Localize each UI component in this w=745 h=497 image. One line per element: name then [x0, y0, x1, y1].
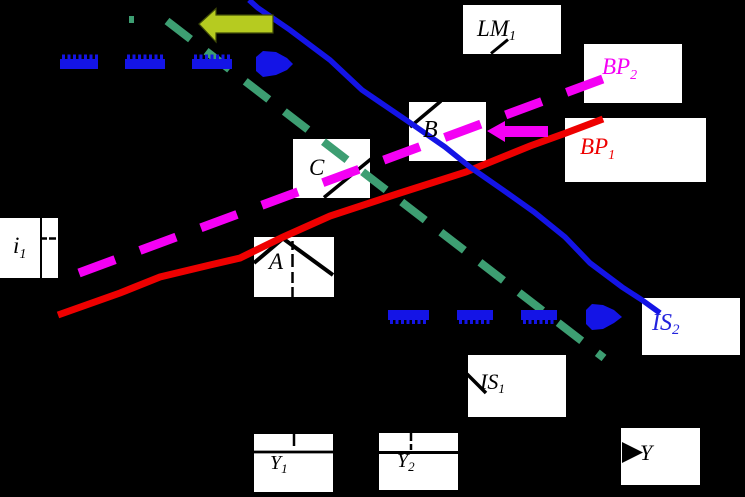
blue dashed arrow (bottom) — [388, 304, 622, 330]
svg-text:C: C — [309, 155, 325, 180]
LM1 curve segment through B — [410, 101, 441, 127]
BP2 curve (magenta dashed) — [79, 79, 604, 274]
tick at Y1 — [293, 434, 296, 446]
label box IS2 — [642, 298, 740, 355]
tick at Y2 — [410, 433, 413, 450]
Y axis arrowhead — [622, 442, 643, 463]
label box Y2 — [379, 433, 458, 490]
label box A — [254, 237, 334, 297]
label box LM1 — [463, 5, 561, 54]
yellow-green shift arrow — [199, 9, 273, 43]
LM1 curve segment at A — [254, 239, 283, 264]
label box Y — [621, 428, 700, 485]
Y axis segment in Y1 box — [254, 451, 333, 454]
dashed line at i1 — [42, 237, 56, 240]
LM1 curve segment under LM1 label — [491, 40, 508, 54]
stray green speck — [129, 16, 134, 23]
IS1 shifted curve (green dashed) — [167, 21, 604, 358]
IS1 curve segment at A — [283, 239, 333, 276]
magenta arrow at BP1 — [487, 121, 548, 142]
label box B — [409, 102, 486, 161]
label box BP2 — [584, 44, 682, 103]
Y axis segment in Y2 box — [379, 451, 458, 454]
svg-text:A: A — [267, 249, 284, 274]
label box IS1 — [468, 355, 566, 417]
IS2 curve (blue) — [249, 0, 660, 313]
IS1 curve segment at IS1 label — [467, 374, 486, 393]
blue dashed arrow (top) — [60, 51, 293, 77]
BP1 curve (red) — [58, 119, 603, 315]
label box i1 — [0, 218, 40, 278]
dashed dropline A to Y1 — [291, 241, 294, 297]
LM1 curve segment through C — [324, 159, 371, 198]
svg-text:B: B — [423, 117, 438, 143]
label box BP1 — [565, 118, 706, 182]
label box Y1 — [254, 434, 333, 492]
label box C — [293, 139, 370, 198]
label box i1 small — [42, 218, 58, 278]
